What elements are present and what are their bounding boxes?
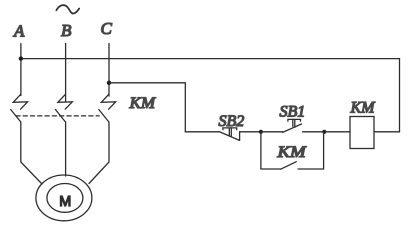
node: parallel branch left junction	[259, 130, 263, 134]
pushbutton SB1 (normally open)	[283, 119, 302, 132]
mechanical linkage (dashed) of KM main contacts	[16, 115, 99, 117]
motor M outer circle	[36, 175, 92, 221]
wire: self-hold branch right side	[298, 132, 324, 169]
svg-text:C: C	[101, 19, 113, 38]
wire: SB1 to node 2	[303, 131, 325, 133]
wire: control bus from phase A (top horizontal)	[21, 58, 400, 60]
wire: coil to right rail	[374, 131, 400, 133]
wire: pole 3 to motor	[89, 122, 109, 184]
contactor main contact KM pole 1 (arrow + blade)	[11, 94, 28, 122]
contactor main contact KM pole 2 (arrow + blade)	[55, 94, 72, 122]
contactor coil KM	[350, 117, 374, 149]
svg-text:SB2: SB2	[219, 113, 245, 130]
wire: pole 1 to motor	[21, 122, 42, 184]
contactor auxiliary contact KM (normally open, self-holding)	[281, 162, 297, 170]
wire: control line into SB2	[185, 131, 219, 133]
AC supply symbol ~	[56, 5, 79, 13]
wire: node 1 to SB1	[261, 131, 283, 133]
wire: SB2 to node 1	[240, 131, 261, 133]
svg-text:SB1: SB1	[280, 103, 306, 120]
node: junction on phase A	[19, 56, 23, 60]
svg-text:KM: KM	[276, 144, 307, 161]
wire: phase C vertical feeder	[108, 44, 110, 97]
wire: pole 2 to motor	[65, 122, 67, 176]
wire: phase B vertical feeder	[65, 44, 67, 102]
pushbutton SB2 (normally closed)	[219, 128, 239, 140]
svg-text:KM: KM	[350, 100, 377, 117]
wire: self-hold branch left side	[261, 132, 281, 169]
svg-text:M: M	[59, 194, 71, 210]
motor M inner circle	[47, 184, 83, 213]
node: junction on phase C	[107, 81, 111, 85]
node: parallel branch right junction	[322, 130, 326, 134]
wire: from phase C junction to control branch	[109, 83, 185, 132]
svg-text:B: B	[61, 21, 72, 40]
svg-text:A: A	[13, 22, 25, 41]
svg-text:KM: KM	[128, 95, 156, 112]
contactor main contact KM pole 3 (arrow + blade)	[99, 94, 116, 122]
wire: node 2 to coil	[324, 131, 350, 133]
wire: right rail up to control bus	[399, 59, 401, 132]
wire: phase A vertical feeder	[20, 44, 22, 96]
